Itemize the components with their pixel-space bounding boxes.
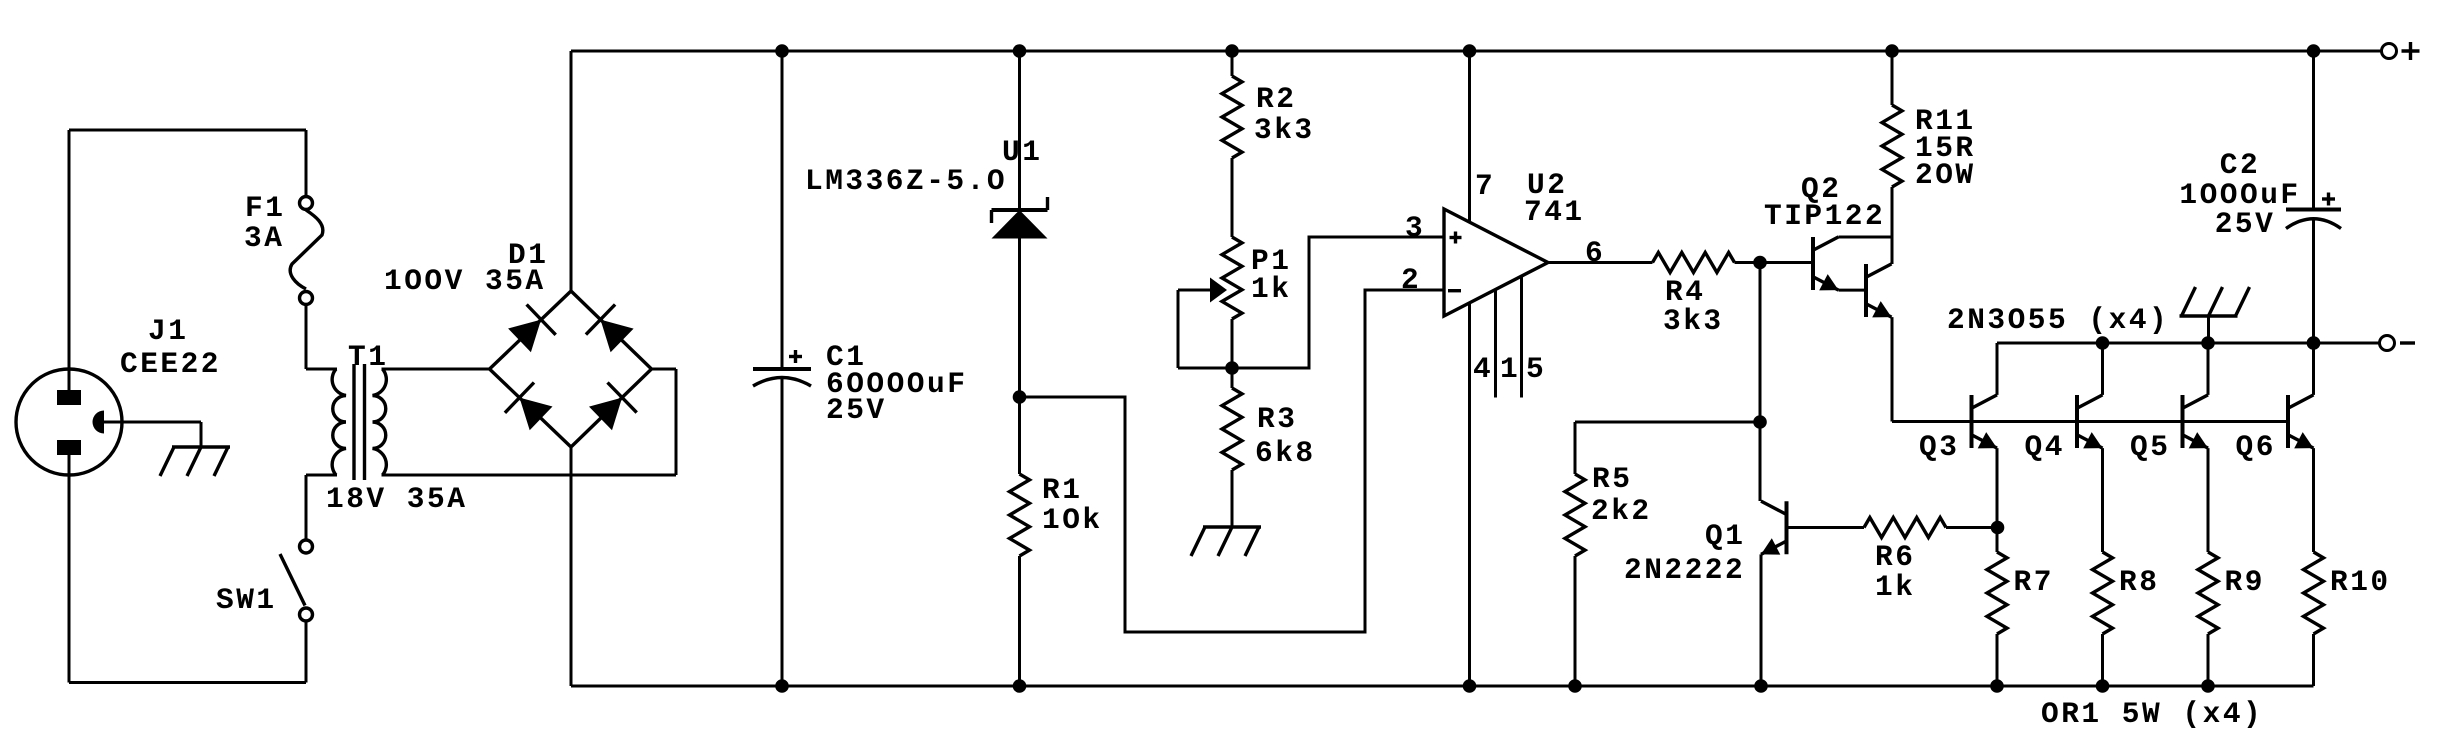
junction C2 top rail xyxy=(2307,44,2321,58)
svg-text:2: 2 xyxy=(1401,263,1421,297)
transistor Q4 2N3055 xyxy=(2077,395,2103,449)
wire R7 bottom xyxy=(1996,634,1999,686)
resistor R2 xyxy=(1222,76,1242,158)
wire pin7 supply xyxy=(1468,51,1471,222)
wire bridge right AC down xyxy=(675,369,678,475)
wire Q5 collector up xyxy=(2207,343,2210,395)
svg-text:SW1: SW1 xyxy=(216,583,277,617)
wire R5 top to Q1 collector xyxy=(1575,421,1760,424)
junction C2 minus rail xyxy=(2307,336,2321,350)
resistor R4 xyxy=(1653,253,1735,273)
wire bridge right AC xyxy=(652,368,677,371)
wire pin4 to bottom rail xyxy=(1468,303,1471,686)
wire pin2 feedback to REF node xyxy=(1020,290,1445,632)
wire base rail Q3-Q6 xyxy=(1892,420,2288,423)
wire mains top xyxy=(69,129,306,132)
C2 plus mark xyxy=(2322,193,2335,206)
svg-text:J1: J1 xyxy=(148,314,188,348)
junction R11 top rail xyxy=(1885,44,1899,58)
wire wiper lead xyxy=(1178,289,1210,292)
svg-text:R7: R7 xyxy=(2014,565,2054,599)
wire Q3 collector up xyxy=(1996,343,1999,395)
svg-text:1Ok: 1Ok xyxy=(1042,503,1103,537)
wire earth pin xyxy=(104,421,201,424)
wire C1 top xyxy=(781,51,784,369)
wire bridge + to top rail xyxy=(570,51,573,291)
wire C2 bottom xyxy=(2312,220,2315,344)
junction node P1/R3 xyxy=(1225,361,1239,375)
zener reference U1 LM336Z-5.0 xyxy=(992,197,1048,239)
wire top positive rail xyxy=(571,50,2382,53)
op-amp - input mark xyxy=(1448,289,1461,292)
ground (chassis) at R3 xyxy=(1191,527,1261,556)
svg-text:Q4: Q4 xyxy=(2025,430,2065,464)
junction R7 bottom rail xyxy=(1990,679,2004,693)
wire Q3 emitter down xyxy=(1996,448,1999,552)
wire Q6 emitter down xyxy=(2312,448,2315,552)
transistor Q3 2N3055 xyxy=(1972,395,1998,449)
wire pin5 stub xyxy=(1520,276,1523,397)
svg-text:25V: 25V xyxy=(826,393,887,427)
junction pin4 bottom rail xyxy=(1463,679,1477,693)
transistor Q6 2N3055 xyxy=(2288,395,2314,449)
svg-text:3: 3 xyxy=(1405,211,1425,245)
resistor R8 xyxy=(2093,552,2113,634)
junction U1 top rail xyxy=(1013,44,1027,58)
svg-text:R2: R2 xyxy=(1256,82,1296,116)
wire J1 line down xyxy=(68,130,71,390)
terminal O+ circle xyxy=(2382,44,2397,59)
svg-text:F1: F1 xyxy=(245,191,285,225)
wire SW1 down xyxy=(305,621,308,683)
wire Q2a emitter to Q2b base xyxy=(1839,289,1867,292)
C1 plus mark xyxy=(789,350,802,363)
svg-text:1k: 1k xyxy=(1875,570,1915,604)
wire Q2 base node down to Q1 collector xyxy=(1759,263,1762,502)
Q2 first transistor xyxy=(1813,237,1839,291)
wire R1 bottom xyxy=(1018,556,1021,686)
svg-text:CEE22: CEE22 xyxy=(120,347,221,381)
ground (chassis) at output minus xyxy=(2180,287,2250,316)
svg-text:2N3O55 (x4): 2N3O55 (x4) xyxy=(1947,303,2169,337)
wire U1 anode to R1 xyxy=(1018,239,1021,475)
wire secondary top to bridge xyxy=(382,368,490,371)
wire Q4 collector up xyxy=(2101,343,2104,395)
wire chassis stem xyxy=(2207,316,2210,343)
junction R9 bottom rail xyxy=(2201,679,2215,693)
capacitor C2 xyxy=(2286,210,2341,229)
junction R5/Q1 collector xyxy=(1753,415,1767,429)
wire Q4 emitter down xyxy=(2101,448,2104,552)
svg-text:TIP122: TIP122 xyxy=(1764,199,1885,233)
svg-text:1: 1 xyxy=(1500,352,1520,386)
wire C1 bottom xyxy=(781,379,784,686)
wire R10 bottom xyxy=(2312,634,2315,686)
resistor R6 xyxy=(1864,518,1946,538)
transformer T1 xyxy=(332,364,386,480)
svg-text:LM336Z-5.O: LM336Z-5.O xyxy=(805,164,1007,198)
potentiometer P1 element xyxy=(1222,237,1242,319)
wire pin3 non-inverting input xyxy=(1232,237,1444,368)
junction C1 top rail xyxy=(775,44,789,58)
terminal O- circle xyxy=(2380,336,2395,351)
svg-text:4: 4 xyxy=(1473,352,1493,386)
svg-text:1k: 1k xyxy=(1251,272,1291,306)
svg-text:2OW: 2OW xyxy=(1915,158,1976,192)
wire Q1 base to R6 xyxy=(1787,526,1865,529)
junction R1 bottom rail xyxy=(1013,679,1027,693)
fuse F1 xyxy=(290,197,323,305)
resistor R7 xyxy=(1987,552,2007,634)
svg-text:6k8: 6k8 xyxy=(1255,436,1316,470)
wire primary bottom lead xyxy=(306,474,337,477)
wire C2 top xyxy=(2312,51,2315,210)
svg-text:6: 6 xyxy=(1585,236,1605,270)
wire T1 to SW1 xyxy=(305,475,308,540)
svg-text:2N2222: 2N2222 xyxy=(1624,553,1745,587)
resistor R3 xyxy=(1222,388,1242,470)
switch SW1 xyxy=(280,540,313,621)
Q2 second transistor xyxy=(1866,264,1892,318)
terminal O- minus sign xyxy=(2400,341,2415,344)
op-amp U2 741 xyxy=(1444,209,1548,316)
wire pin1 stub xyxy=(1494,290,1497,398)
wire R5 bottom xyxy=(1574,556,1577,686)
svg-text:R6: R6 xyxy=(1875,540,1915,574)
svg-text:Q1: Q1 xyxy=(1705,519,1745,553)
svg-text:Q3: Q3 xyxy=(1919,430,1959,464)
junction R2 top rail xyxy=(1225,44,1239,58)
junction Q6 collector minus rail xyxy=(2307,336,2321,350)
svg-text:D1: D1 xyxy=(508,238,548,272)
svg-text:741: 741 xyxy=(1524,195,1585,229)
wire Q2 emitter down xyxy=(1891,317,1894,421)
diode D1b (right AC to +) xyxy=(586,305,634,353)
svg-text:18V 35A: 18V 35A xyxy=(326,482,467,516)
wire P1 bottom xyxy=(1231,319,1234,368)
wire primary top lead xyxy=(306,368,337,371)
svg-text:R1: R1 xyxy=(1042,473,1082,507)
wire R6 to Q3 emitter xyxy=(1946,526,1998,529)
svg-text:R9: R9 xyxy=(2225,565,2265,599)
svg-text:C2: C2 xyxy=(2220,148,2260,182)
svg-text:OR1 5W (x4): OR1 5W (x4) xyxy=(2041,697,2263,731)
terminal O+ plus sign xyxy=(2402,42,2420,60)
ground (chassis) at J1 xyxy=(160,447,230,476)
svg-text:2k2: 2k2 xyxy=(1591,494,1652,528)
wire R8 bottom xyxy=(2101,634,2104,686)
wire R9 bottom xyxy=(2207,634,2210,686)
svg-text:R3: R3 xyxy=(1257,402,1297,436)
wire node to R3 xyxy=(1231,368,1234,388)
svg-text:U1: U1 xyxy=(1002,135,1042,169)
potentiometer P1 wiper arrow xyxy=(1210,278,1227,303)
resistor R10 xyxy=(2304,552,2324,634)
svg-text:3A: 3A xyxy=(244,221,284,255)
junction Q5 collector minus rail xyxy=(2201,336,2215,350)
svg-text:25V: 25V xyxy=(2215,207,2276,241)
junction Q1 emitter bottom rail xyxy=(1754,679,1768,693)
wire R2 top xyxy=(1231,51,1234,76)
svg-text:R10: R10 xyxy=(2330,565,2391,599)
wire output minus rail xyxy=(1997,342,2380,345)
svg-text:R8: R8 xyxy=(2119,565,2159,599)
op-amp + input mark xyxy=(1450,232,1462,244)
wire R3 to ground xyxy=(1231,470,1234,527)
wire earth down xyxy=(200,422,203,447)
wire J1 bottom down xyxy=(68,455,71,683)
wire Q6 collector up xyxy=(2312,343,2315,395)
junction R5 bottom rail xyxy=(1568,679,1582,693)
diode D1a (lower-left AC to +) xyxy=(508,305,556,353)
wire U1 cathode xyxy=(1018,51,1021,211)
transistor Q5 2N3055 xyxy=(2183,395,2209,449)
wire bottom negative rail xyxy=(571,685,2314,688)
wire mains bottom xyxy=(69,681,306,684)
wire to F1 xyxy=(305,130,308,196)
wire R5 stub xyxy=(1574,422,1577,474)
capacitor C1 xyxy=(753,369,811,386)
resistor R1 xyxy=(1010,474,1030,556)
svg-text:3k3: 3k3 xyxy=(1254,113,1315,147)
connector J1 CEE22 xyxy=(16,369,122,475)
wire Q1 emitter to bottom rail xyxy=(1760,554,1763,686)
junction node R4/Q2/Q1 xyxy=(1753,256,1767,270)
transistor Q1 2N2222 xyxy=(1761,501,1787,554)
svg-text:Q6: Q6 xyxy=(2236,430,2276,464)
wire output pin6 xyxy=(1548,261,1653,264)
svg-text:5: 5 xyxy=(1526,352,1546,386)
junction Q4 collector minus rail xyxy=(2096,336,2110,350)
wire secondary bottom AC xyxy=(382,474,677,477)
wire F1 to T1 xyxy=(305,305,308,370)
svg-text:3k3: 3k3 xyxy=(1663,304,1724,338)
wire R2 to P1 xyxy=(1231,158,1234,237)
junction pin7 top rail xyxy=(1463,44,1477,58)
resistor R5 xyxy=(1565,474,1585,556)
junction R8 bottom rail xyxy=(2096,679,2110,693)
wire Q2a collector xyxy=(1839,236,1893,239)
wire bridge - to bottom rail xyxy=(570,447,573,686)
svg-text:R5: R5 xyxy=(1592,462,1632,496)
wire Q5 emitter down xyxy=(2207,448,2210,552)
wire wiper to node xyxy=(1178,367,1232,370)
junction R6/Q3 emitter/R7 xyxy=(1991,521,2005,535)
resistor R11 xyxy=(1882,105,1902,187)
junction C1 bottom rail xyxy=(775,679,789,693)
wire wiper down xyxy=(1177,290,1180,368)
wire R11/Q2 collector column xyxy=(1891,187,1894,264)
wire R11 top xyxy=(1891,51,1894,105)
bridge rectifier D1 xyxy=(490,291,652,447)
resistor R9 xyxy=(2198,552,2218,634)
wire R4 to Q2 base xyxy=(1735,261,1814,264)
diode D1d (- to right AC) xyxy=(589,383,637,431)
svg-text:7: 7 xyxy=(1475,169,1495,203)
svg-text:Q5: Q5 xyxy=(2130,430,2170,464)
diode D1c (- to left AC) xyxy=(505,383,553,431)
junction node REF (U1/R1/feedback) xyxy=(1013,390,1027,404)
